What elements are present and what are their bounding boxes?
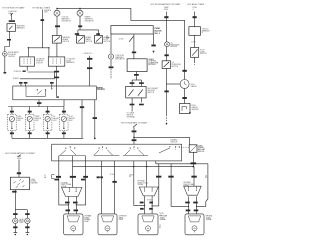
bus A right label: [205, 175, 208, 179]
LH rear connector (trapezoid): [62, 187, 83, 196]
fuse F3 wire: [18, 160, 20, 178]
spark module U2 label: [148, 58, 158, 66]
indicator lamp L2 (oil warning): [77, 10, 83, 16]
wire RH rear 2 stack left: [188, 196, 190, 214]
wire drop indicator 1: [56, 8, 58, 9]
junction bus main fuse wire: [133, 166, 134, 167]
RH rear 2 connector (trapezoid): [184, 186, 202, 195]
sender G2 label: [192, 105, 200, 111]
wire S5 output: [194, 57, 196, 62]
switch S1 label: [63, 36, 71, 43]
BK wire end dot: [94, 138, 96, 140]
svg-text:SWITCH: SWITCH: [63, 41, 70, 43]
net label HOT AT ALL TIMES (left): [33, 7, 51, 10]
wire label LG low: [54, 179, 58, 181]
wire indicator 1 to switch S1: [56, 17, 58, 36]
switch S3 (parking brake): [95, 36, 103, 44]
wire split below U2: [132, 79, 141, 81]
wire drop LG to LH front: [59, 156, 69, 205]
C2 output label 2: [54, 77, 59, 79]
hazard switch label top: [171, 139, 179, 144]
cluster BK wire: [94, 100, 96, 138]
svg-text:UNIT: UNIT: [69, 120, 73, 122]
wire fuse F2 to spark box: [133, 34, 135, 59]
switch S2 blade: [78, 37, 83, 41]
svg-text:18 WH: 18 WH: [110, 174, 115, 176]
wire drop to switch S2: [77, 30, 79, 36]
wire label WH rect2: [112, 181, 116, 183]
TS contact C1: [130, 148, 131, 149]
svg-text:— 18 BK/TN —: — 18 BK/TN —: [82, 53, 94, 55]
net label HOT IN RUN BATTERY OR START (mid): [121, 121, 148, 124]
wire flasher output: [14, 190, 16, 210]
wire label TN low: [81, 179, 85, 181]
bracket connector marker: [52, 175, 55, 179]
svg-text:GY/BK: GY/BK: [147, 199, 152, 201]
gauge 2 pin dot: [29, 128, 30, 129]
gauge 4 meter: [61, 116, 66, 121]
gauge 1 label: [17, 116, 24, 122]
wire spark module output: [135, 72, 137, 81]
U3 blade 2: [138, 90, 143, 96]
RH rear stack right wire: [151, 196, 153, 214]
wire label row 18 BK/TN: [82, 53, 94, 55]
U3 blade 1: [129, 90, 134, 96]
TS contact E3: [179, 146, 180, 147]
svg-text:BK: BK: [129, 176, 131, 178]
gauge 1 ground label: [10, 132, 14, 134]
wire drop LG/BK to trap3: [193, 167, 195, 187]
junction node left: [28, 47, 29, 48]
gauge 1 dashed housing: [8, 114, 17, 130]
gauge 1 internal wire: [11, 122, 13, 128]
clock M1: [180, 80, 189, 89]
switch S4 blade: [164, 63, 169, 68]
svg-text:FUSE: FUSE: [193, 7, 197, 9]
wire limiter to ground: [4, 56, 6, 72]
gauge 4 ground drop: [63, 131, 65, 139]
wire label below U2: [134, 74, 139, 76]
wire LH rear stack left: [67, 196, 69, 214]
U3 label: [148, 87, 160, 94]
wire drop right to box U3: [140, 80, 142, 86]
RH rear 2 light assembly label: [206, 215, 214, 222]
svg-text:SENDER: SENDER: [170, 46, 178, 48]
wire label GY cluster: [80, 106, 84, 108]
cluster contact 2: [45, 89, 46, 90]
wire label out left: [130, 104, 135, 106]
wire clock down: [184, 89, 186, 104]
cluster pin stub 3: [51, 84, 53, 86]
TS contact E2: [175, 146, 176, 147]
wire end label BK: [4, 72, 7, 74]
gauge 3 label: [53, 116, 60, 122]
switch S3 contact: [101, 36, 102, 37]
wire label RD 2: [96, 33, 100, 35]
RH rear 2 light assembly: [185, 214, 204, 235]
RH rear 2 connector label: [183, 181, 194, 188]
wire RH front signal ground: [26, 224, 28, 233]
indicator lamp L1 (brake warning): [54, 10, 60, 16]
gauge 1 meter: [9, 116, 14, 121]
bus A upper: [156, 163, 208, 165]
TS contact A2: [70, 146, 71, 147]
RH front turn signal light: [25, 218, 30, 223]
TS blade E: [159, 148, 170, 153]
switch S3 label: [104, 36, 111, 43]
svg-text:10 RD: 10 RD: [119, 38, 125, 40]
TS blade B right: [107, 150, 112, 155]
junction node right: [48, 47, 49, 48]
note left bottom 2: [159, 225, 161, 229]
switch S5 blade: [192, 50, 197, 55]
junction trap1 right stack: [76, 204, 77, 205]
front signal split: [15, 209, 27, 211]
gauge 3 meter: [45, 116, 50, 121]
TS blade C left: [125, 150, 130, 155]
wire S4 to clock branch: [165, 69, 167, 116]
hazard S6 label right: [198, 145, 205, 152]
connector C2: [48, 57, 65, 66]
gauge 4 pin dot: [63, 128, 64, 129]
connector C2 pin 3: [59, 59, 61, 65]
svg-text:20 BK/LG: 20 BK/LG: [14, 71, 22, 73]
svg-text:10: 10: [106, 36, 108, 38]
RH rear stack right label b: [149, 208, 153, 210]
svg-text:LIGHT: LIGHT: [84, 221, 89, 223]
gauge feed bus: [8, 106, 64, 108]
fusible link label: [44, 10, 52, 14]
wire label 10 RD: [119, 38, 125, 40]
wire label RD/WH: [191, 162, 197, 164]
svg-text:HARNESS: HARNESS: [66, 61, 75, 64]
svg-text:HOT IN RUN BATT OR START: HOT IN RUN BATT OR START: [121, 121, 148, 124]
fuse block left pin label: [106, 36, 109, 40]
cluster pin label 3: [50, 82, 54, 84]
wire drop BK/LG: [152, 164, 159, 206]
junction indicator 2: [79, 8, 80, 9]
indicator L1 label: [62, 17, 72, 23]
svg-text:LIMITER: LIMITER: [8, 56, 15, 58]
wire indicator 2 down: [79, 17, 81, 30]
wire drop to switch S3: [98, 30, 100, 36]
svg-text:HOT IN RUN OR START: HOT IN RUN OR START: [3, 7, 26, 10]
wire label BK cluster: [93, 117, 97, 119]
wire connector C2 output to cluster: [56, 66, 58, 96]
wire feed to hazard switch: [134, 137, 190, 145]
LH front ground dot: [15, 234, 16, 235]
net label HOT IN RUN BATTERY OR START: [5, 152, 36, 155]
wire label RD: [41, 19, 45, 21]
TS contact C3: [137, 148, 138, 149]
fuse F1 label 10 AMP FUSE: [8, 10, 18, 15]
RH front park light assembly: [98, 214, 117, 235]
wire oil sender feed: [165, 12, 167, 42]
connector C2 pin 2: [56, 59, 58, 65]
wire bus line 1: [28, 71, 57, 73]
cluster internal stub: [44, 90, 46, 97]
junction bus main trap2: [146, 166, 147, 167]
switch S5 label: [200, 49, 207, 55]
gauge 4 label: [69, 116, 76, 122]
breaker CB1 label: [202, 28, 211, 34]
switch S2 label: [86, 36, 93, 43]
gauge ground bus: [12, 137, 83, 139]
ground dot: [166, 123, 168, 125]
wire T split to connectors: [28, 47, 49, 49]
svg-text:TURN: TURN: [19, 222, 23, 224]
cluster internal blade: [37, 90, 41, 94]
junction trap3 left stack: [188, 206, 189, 207]
junction hazard to bus: [193, 166, 195, 168]
wire LH rear stack right: [75, 196, 77, 214]
svg-text:BK: BK: [159, 227, 161, 229]
gauge 4 feed label: [62, 111, 66, 113]
wire U3 output right: [140, 98, 142, 103]
limiter U1 label: [8, 52, 19, 58]
sender G2 ground dot: [189, 112, 191, 114]
svg-text:SENDER: SENDER: [192, 109, 200, 111]
svg-text:LIGHT: LIGHT: [119, 219, 124, 221]
gauge 4 feed drop: [63, 107, 65, 115]
gauge 4 ground label: [62, 132, 66, 134]
gauge 3 feed drop: [47, 107, 49, 115]
hazard S6 internal blade: [190, 145, 197, 152]
gauge bus riser: [63, 100, 65, 107]
wire dashed continuation below L3: [110, 69, 112, 79]
wire label flasher out: [12, 191, 16, 193]
cluster contact 3: [51, 88, 52, 89]
TS contact B2: [102, 146, 103, 147]
fuse block stub right: [153, 34, 155, 44]
TS contact B1: [99, 148, 100, 149]
LH front ground bar: [13, 232, 17, 234]
wire fuse F4 to TS switch: [133, 128, 135, 145]
svg-text:17 RD: 17 RD: [191, 42, 197, 44]
wire bus line 2: [20, 78, 55, 80]
svg-text:HOT AT ALL TIMES: HOT AT ALL TIMES: [187, 3, 204, 6]
wire label cluster out: [37, 102, 41, 104]
clock M1 label: [191, 84, 198, 88]
LH rear connector label: [61, 181, 72, 188]
wire label LT GN: [9, 20, 15, 22]
LH front turn signal light: [13, 218, 18, 223]
wire label BR a: [97, 176, 100, 178]
switch S2 contact: [83, 36, 84, 37]
gauge 1 feed drop: [11, 107, 13, 115]
RH rear stack left junction: [144, 205, 145, 206]
wire label 14 BR: [87, 58, 92, 60]
wire U3 output left: [131, 98, 133, 112]
svg-text:NO. 2: NO. 2: [155, 33, 161, 35]
svg-text:TERMINAL: TERMINAL: [127, 115, 136, 118]
wire RH front signal feed: [26, 210, 28, 218]
svg-text:GAUGE: GAUGE: [191, 85, 198, 88]
bus line 2 label: [13, 78, 20, 80]
switch S1 (oil pressure): [52, 36, 61, 44]
connector C1 label: [36, 58, 45, 65]
gauge 2 meter: [27, 116, 32, 121]
wire RH front ground label: [25, 226, 29, 228]
switch S4 contact: [168, 62, 169, 63]
wire label LG: [56, 176, 61, 178]
wire label PK: [7, 39, 11, 41]
wire LH front signal feed: [14, 210, 16, 218]
indicator L2 label: [85, 16, 95, 23]
RH rear stack left wire: [144, 196, 146, 214]
instrument voltage limiter U1: [3, 52, 8, 57]
wire drop left to box U3: [131, 80, 133, 86]
note TO DISTRIBUTOR: [127, 112, 136, 119]
svg-text:18 BK/E: 18 BK/E: [13, 78, 20, 80]
svg-text:LH FRONT: LH FRONT: [119, 216, 127, 218]
net label HOT IN RUN OR START: [3, 7, 26, 10]
turn signal flasher K2: [10, 177, 29, 190]
svg-text:CIRCUIT: CIRCUIT: [36, 62, 43, 64]
RH rear stack right junction: [152, 205, 153, 206]
connector C1 pin 1: [23, 59, 25, 65]
svg-text:CLUSTR: CLUSTR: [97, 89, 105, 91]
oil pressure switch S4: [162, 61, 170, 69]
gauge 3 dashed housing: [43, 114, 52, 130]
svg-text:6: 6: [193, 9, 194, 11]
wire switch S1 output: [56, 43, 58, 57]
bus main: [73, 166, 195, 168]
wire LH front ground label: [13, 226, 17, 228]
fuse F3 label: [17, 155, 22, 160]
C2 output label 1: [54, 71, 59, 73]
switch S4 label: [172, 62, 182, 68]
gauge 3 ground label: [46, 132, 50, 134]
junction F4 bus: [133, 137, 135, 139]
svg-text:SWITCH: SWITCH: [148, 92, 155, 94]
wire connector C1 output: [26, 66, 28, 71]
RH rear light assembly label: [160, 215, 168, 222]
svg-text:UNIT: UNIT: [35, 120, 39, 122]
stop light switch S5: [191, 48, 199, 58]
fuse label right col: [193, 7, 197, 11]
svg-text:SWITCH: SWITCH: [200, 53, 207, 55]
wire hazard S6 output: [192, 152, 194, 166]
note stop light: [110, 174, 115, 176]
svg-text:BREAKER: BREAKER: [202, 29, 211, 32]
svg-text:16: 16: [44, 175, 46, 177]
cluster pin label 1: [19, 82, 23, 84]
gauge 2 feed label: [28, 111, 32, 113]
note left bottom 1: [159, 213, 165, 217]
cluster internal L wire: [26, 86, 45, 97]
fuse label 3 AMP FUSE: [164, 6, 169, 11]
gauge 2 ground label: [28, 132, 32, 134]
continuation arrow: [152, 51, 154, 53]
RH front park light assembly label: [119, 216, 127, 222]
TS dashed link C: [133, 147, 135, 150]
sender G1 label: [170, 42, 180, 48]
switch S1 contact: [59, 36, 60, 37]
cluster pin stub 1: [20, 84, 22, 86]
svg-text:SWITCH: SWITCH: [104, 41, 111, 43]
svg-text:HOT IN RUN BATTERY OR START: HOT IN RUN BATTERY OR START: [151, 3, 182, 6]
spark control module U2: [127, 59, 147, 72]
junction trap3 right stack: [196, 206, 197, 207]
wire label 17 RD: [191, 42, 197, 44]
TS blade C right: [139, 150, 144, 155]
TS internal rail A: [59, 155, 86, 157]
wire label right: [139, 82, 144, 84]
switch S1 blade: [54, 37, 59, 41]
TS blade A left: [60, 150, 66, 155]
svg-text:SWITCH: SWITCH: [172, 66, 179, 68]
lamp check relay K1: [7, 24, 16, 32]
gauge 2 internal wire: [29, 122, 31, 128]
gauge 3 internal wire: [47, 122, 49, 128]
wire label BK left: [164, 91, 168, 93]
svg-text:WARNING: WARNING: [17, 26, 26, 29]
junction indicator 1: [56, 8, 57, 9]
connector C2 label: [66, 57, 75, 64]
wire GY label clock feed: [182, 70, 186, 72]
TS blade A right: [71, 150, 76, 155]
relay K1 internal contact: [9, 26, 13, 30]
svg-text:SWITCH: SWITCH: [86, 41, 93, 43]
bus line 1 label: [14, 71, 22, 73]
svg-text:18: 18: [159, 225, 161, 227]
RH front ground dot: [27, 234, 28, 235]
wire clock left branch: [166, 83, 180, 85]
junction trap1 left stack: [68, 204, 69, 205]
wire relay K1 to limiter: [5, 31, 10, 51]
wire long drop to trap2 left stack: [134, 161, 145, 206]
wire label LG/BK: [191, 176, 196, 178]
bus line 1 blob: [23, 71, 26, 72]
bus main riser: [72, 156, 74, 167]
wire label out right: [139, 104, 144, 106]
wire breaker feed: [194, 12, 196, 27]
relay K1 label: [17, 25, 26, 30]
cluster contact 1: [37, 89, 38, 90]
TS dashed link A: [69, 147, 71, 150]
gauge 2 dashed housing: [26, 114, 35, 130]
cluster pin label 2: [24, 82, 28, 84]
RH rear stack right label a: [149, 202, 153, 204]
wire label 18 RD/BK: [129, 174, 134, 178]
RH rear stack left label a: [140, 202, 144, 204]
switch S2 (brake warning): [77, 36, 85, 44]
switch S5 contact: [197, 49, 198, 50]
fusible link label blob: [164, 16, 168, 18]
wire top bus stepped feed: [57, 8, 185, 79]
wire split to switches: [78, 29, 99, 31]
TS contact E1: [169, 146, 170, 147]
instrument cluster housing: [13, 86, 97, 100]
indicator L3 label: [115, 55, 125, 61]
TS dashed link B: [102, 147, 104, 150]
wire label RD: [78, 25, 82, 27]
svg-text:MODULE: MODULE: [148, 64, 156, 66]
wire label BR b: [100, 176, 103, 178]
wire label F4 out 2: [132, 139, 137, 141]
fuse F4 symbol: [133, 124, 137, 127]
svg-text:UNIT: UNIT: [17, 120, 21, 122]
indicator lamp L3 (low fuel): [108, 54, 113, 59]
RH rear connector label: [138, 180, 149, 187]
wire drop BR to rect2 left pin: [101, 161, 103, 214]
wire label below L3: [109, 66, 114, 68]
wire dashed ground stub: [165, 115, 167, 123]
wire label right feed: [193, 16, 197, 18]
wire RH front label: [25, 213, 29, 215]
wire fusible link feed: [41, 10, 43, 48]
